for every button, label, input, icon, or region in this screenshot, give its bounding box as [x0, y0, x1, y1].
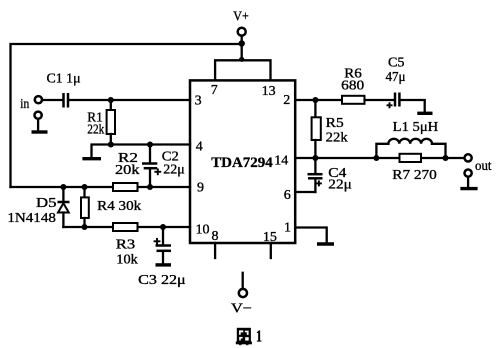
- svg-text:out: out: [475, 159, 492, 174]
- svg-text:9: 9: [197, 181, 204, 196]
- svg-text:47μ: 47μ: [386, 70, 406, 85]
- wire V+ lead down to junction: [241, 36, 243, 45]
- svg-text:680: 680: [341, 79, 364, 94]
- svg-text:V+: V+: [233, 10, 249, 25]
- svg-text:13: 13: [262, 84, 276, 99]
- resistor R3: [113, 223, 138, 231]
- wire R1 bottom to ground: [92, 145, 111, 158]
- ground at output: [460, 187, 477, 190]
- junction dot R4 top: [82, 184, 88, 190]
- label C1 1μ: [47, 72, 81, 87]
- label 22k: [87, 123, 104, 138]
- pin 7 label: [211, 83, 218, 98]
- wire bracket to pin 7 and pin 13: [215, 60, 270, 80]
- svg-text:R4 30k: R4 30k: [97, 199, 141, 214]
- ground under R1: [82, 157, 101, 160]
- svg-text:R7 270: R7 270: [392, 168, 437, 183]
- label C5: [388, 56, 405, 71]
- svg-text:V−: V−: [231, 302, 252, 317]
- junction dot L1 left: [373, 155, 379, 161]
- wire output lower terminal to ground: [467, 177, 469, 187]
- diode D5: [58, 187, 70, 227]
- junction dot D5 top: [60, 184, 66, 190]
- svg-text:3: 3: [195, 94, 202, 109]
- resistor R1: [107, 100, 115, 145]
- pin 13 label: [262, 84, 276, 99]
- ground after C5: [417, 112, 432, 115]
- label R6: [344, 66, 362, 81]
- node in label: [20, 97, 29, 112]
- label 47μ: [386, 70, 406, 85]
- wire pin 2 to R6: [295, 99, 342, 101]
- pin 3 label: [195, 94, 202, 109]
- caption figure glyph 图: [236, 328, 252, 345]
- label 680: [341, 79, 364, 94]
- pin 9 label: [197, 181, 204, 196]
- svg-text:R5: R5: [326, 116, 344, 131]
- svg-text:C5: C5: [388, 56, 405, 71]
- plus sign of C2: [154, 168, 161, 175]
- wire pin 4 line: [111, 143, 190, 145]
- svg-text:8: 8: [212, 229, 219, 244]
- label 10k: [116, 253, 138, 268]
- capacitor C4: [308, 158, 323, 192]
- junction dot R4 bottom: [82, 224, 88, 230]
- ground under C3: [156, 263, 172, 266]
- wire pin 9 line: [11, 186, 191, 188]
- svg-text:6: 6: [284, 188, 291, 203]
- capacitor C1: [64, 93, 69, 108]
- wire V+ down to pin7/13 bracket: [241, 44, 243, 60]
- wire input lower terminal to ground: [37, 119, 39, 131]
- label R5: [326, 116, 344, 131]
- capacitor C5: [395, 93, 399, 107]
- node V+ label: [233, 10, 249, 25]
- label L1 5μH: [393, 120, 439, 135]
- label 1N4148: [7, 211, 56, 226]
- output terminal circle top: [465, 154, 472, 161]
- svg-text:10: 10: [196, 223, 210, 238]
- resistor R7: [400, 154, 422, 162]
- svg-text:C3 22μ: C3 22μ: [138, 273, 186, 288]
- label R2: [118, 151, 138, 166]
- svg-text:22k: 22k: [87, 123, 104, 138]
- junction dot L1 right: [443, 155, 449, 161]
- caption figure number 1: [256, 326, 262, 345]
- node out label: [475, 159, 492, 174]
- label C2: [162, 150, 179, 165]
- junction dot C3 top: [160, 224, 166, 230]
- wire C5 to ground: [401, 100, 425, 112]
- wire R6 to C5: [365, 99, 394, 101]
- pin 4 label: [196, 140, 203, 155]
- V+ terminal circle: [238, 28, 246, 36]
- pin 14 label: [274, 154, 288, 169]
- pin 6 label: [284, 188, 291, 203]
- svg-text:D5: D5: [36, 196, 57, 211]
- junction dot C2 top: [147, 142, 153, 148]
- label 20k: [115, 163, 140, 178]
- plus sign of C5: [387, 102, 393, 108]
- label C3 22μ: [138, 273, 186, 288]
- wire V- stub: [242, 273, 244, 289]
- wire pin 14 line: [295, 157, 464, 159]
- capacitor C3: [156, 227, 172, 263]
- label C4: [328, 166, 346, 181]
- svg-text:1: 1: [256, 326, 262, 345]
- resistor R4: [81, 187, 89, 227]
- svg-text:22k: 22k: [326, 131, 348, 146]
- svg-text:1: 1: [284, 221, 291, 236]
- node V- label: [231, 302, 252, 317]
- svg-text:14: 14: [274, 154, 288, 169]
- V- terminal circle: [239, 289, 247, 297]
- junction dot at R1 top: [108, 97, 114, 103]
- wire pin 6 to C4: [295, 191, 315, 193]
- svg-text:20k: 20k: [115, 163, 140, 178]
- resistor R5: [312, 100, 321, 158]
- svg-text:in: in: [20, 97, 29, 112]
- label 22μ: [163, 163, 185, 178]
- label TDA7294: [211, 155, 273, 171]
- output terminal circle bottom: [465, 170, 472, 177]
- junction dot R5 bottom: [312, 155, 318, 161]
- inductor L1: [376, 139, 445, 158]
- svg-text:10k: 10k: [116, 253, 138, 268]
- wire pin 8 stub: [214, 243, 216, 258]
- label 22k: [326, 131, 348, 146]
- wire C1 to pin 3: [69, 99, 190, 101]
- wire pin 10 line: [63, 226, 190, 228]
- junction dot on bracket: [239, 57, 244, 62]
- pin 8 label: [212, 229, 219, 244]
- wire pin 15 stub: [270, 243, 272, 258]
- svg-text:TDA7294: TDA7294: [211, 155, 273, 171]
- junction dot C2 bottom: [147, 184, 153, 190]
- resistor R2: [113, 183, 138, 191]
- svg-text:2: 2: [283, 93, 290, 108]
- resistor R6: [342, 96, 365, 104]
- junction dot at R1 bottom: [108, 142, 114, 148]
- wire top rail from V+ to left edge: [11, 44, 242, 187]
- input terminal circle top: [35, 96, 42, 103]
- capacitor C2: [142, 145, 157, 188]
- label R7 270: [392, 168, 437, 183]
- label D5: [36, 196, 57, 211]
- junction dot under V+: [239, 40, 245, 46]
- wire pin 1 to ground: [295, 228, 327, 243]
- pin 10 label: [196, 223, 210, 238]
- junction dot R5 top: [312, 97, 318, 103]
- ground at pin 1: [317, 242, 334, 245]
- svg-text:4: 4: [196, 140, 203, 155]
- wire input to C1: [42, 99, 62, 101]
- plus sign of C3: [154, 238, 161, 245]
- svg-text:1N4148: 1N4148: [7, 211, 56, 226]
- op-amp U1 IC box TDA7294: [190, 80, 295, 243]
- svg-text:7: 7: [211, 83, 218, 98]
- pin 1 label: [284, 221, 291, 236]
- svg-text:R3: R3: [116, 238, 136, 253]
- svg-text:22μ: 22μ: [328, 178, 352, 193]
- label 22μ: [328, 178, 352, 193]
- plus sign of C4: [316, 180, 322, 186]
- label R3: [116, 238, 136, 253]
- svg-text:C1 1μ: C1 1μ: [47, 72, 81, 87]
- label R1: [87, 111, 103, 126]
- pin 15 label: [263, 230, 277, 245]
- pin 2 label: [283, 93, 290, 108]
- svg-text:L1 5μH: L1 5μH: [393, 120, 439, 135]
- input terminal circle bottom: [35, 112, 42, 119]
- label R4 30k: [97, 199, 141, 214]
- ground at input: [32, 130, 48, 133]
- svg-text:22μ: 22μ: [163, 163, 185, 178]
